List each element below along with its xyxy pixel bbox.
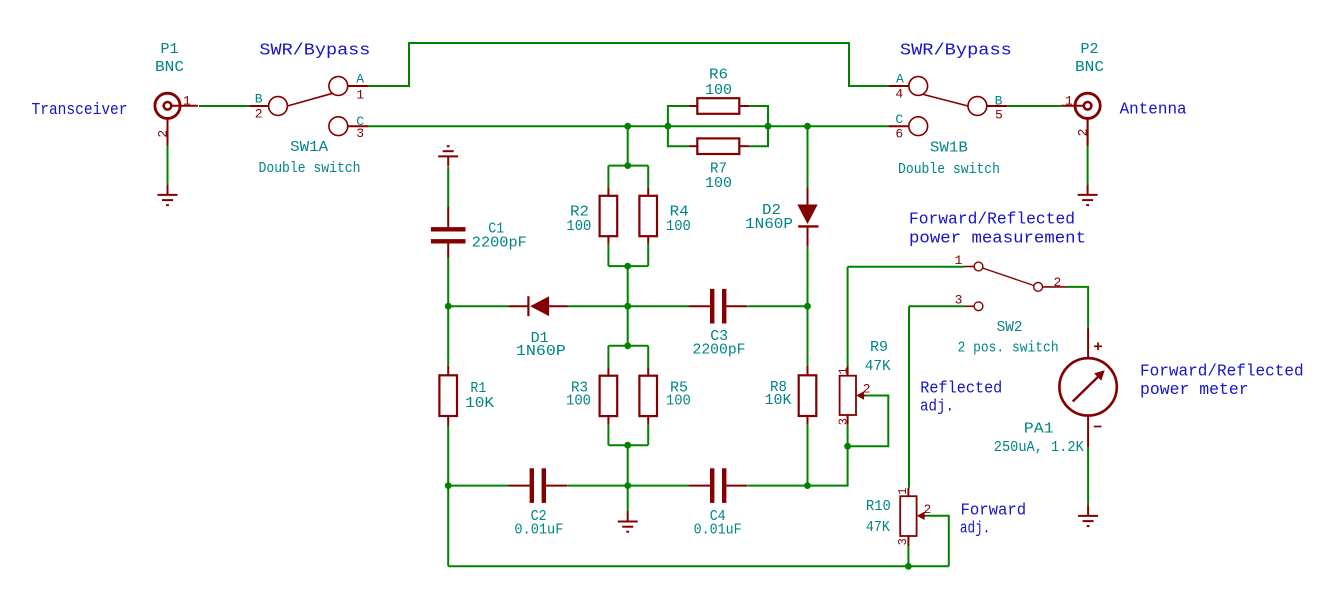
node junction R9 pin3 wiper: [844, 443, 851, 450]
switch SW1A lever: [287, 93, 333, 106]
wire D2 to R8 top: [807, 246, 809, 365]
pin stubs of R8: [807, 366, 809, 376]
wire R2 R4 top bracket: [608, 165, 648, 167]
pin A stub of SW1B: [888, 85, 908, 87]
svg-text:2: 2: [1054, 275, 1062, 290]
ground under P1: [158, 184, 178, 205]
svg-text:SWR/Bypass: SWR/Bypass: [259, 41, 370, 60]
svg-text:2200pF: 2200pF: [693, 342, 746, 359]
svg-text:Antenna: Antenna: [1120, 101, 1187, 120]
text Forward/Reflected power meter: [1140, 362, 1304, 400]
wire P1 pin1 to SW1A pin B: [199, 105, 249, 107]
node junction R6R7 right: [765, 123, 772, 130]
wire to R4 top: [647, 166, 649, 188]
wire center node down to R3 R5 top: [627, 266, 629, 346]
connector P2 BNC: [1075, 93, 1100, 118]
wire to R7 left: [668, 126, 689, 146]
potentiometer R10 body: [900, 496, 916, 536]
pin C stub of SW1A: [348, 125, 368, 127]
wire C4 to R9 pin3 node: [748, 446, 848, 485]
capacitor C3: [689, 289, 748, 324]
node junction R2R4 bottom: [624, 263, 631, 270]
plus sign of PA1: [1094, 342, 1102, 350]
svg-text:100: 100: [666, 393, 691, 410]
wire R2 bottom: [607, 244, 609, 266]
svg-text:2200pF: 2200pF: [472, 234, 527, 251]
resistor R8: [799, 375, 817, 416]
pin stubs of R4: [647, 188, 649, 196]
svg-text:PA1: PA1: [1024, 420, 1054, 437]
node junction mid center: [624, 303, 631, 310]
minus sign of PA1: [1094, 426, 1102, 428]
svg-text:6: 6: [895, 126, 903, 141]
node junction R6R7 left: [665, 123, 672, 130]
pin stubs of R3: [607, 368, 609, 376]
wire to R6 left: [668, 106, 689, 126]
switch SW1B lever: [924, 95, 969, 107]
svg-text:R9: R9: [870, 339, 888, 356]
wire SW2 pin3 down to R10 pin1: [908, 306, 910, 487]
svg-text:0.01uF: 0.01uF: [514, 522, 563, 539]
svg-text:power measurement: power measurement: [909, 230, 1086, 249]
ground above C1: [438, 146, 458, 166]
pin B stub of SW1B: [987, 105, 1007, 107]
pin 1 of P1: [171, 105, 198, 107]
svg-text:R10: R10: [866, 498, 891, 515]
wiper arrow of R9: [856, 391, 866, 399]
svg-text:2: 2: [863, 382, 871, 397]
pin stubs of R9: [847, 366, 849, 376]
capacitor C4: [689, 468, 748, 503]
wire P1 pin2 to ground: [167, 119, 169, 185]
resistor R6: [697, 98, 739, 114]
wire to R3 top: [607, 346, 609, 368]
resistor R5: [639, 376, 657, 416]
svg-text:A: A: [356, 72, 364, 87]
svg-text:47K: 47K: [866, 519, 890, 536]
wiper arrow of R10: [917, 512, 926, 520]
ground under meter: [1078, 505, 1098, 526]
svg-text:Reflected: Reflected: [920, 380, 1002, 399]
wire to SW2 pin 1: [848, 266, 965, 268]
wire C1 to mid node and R1: [447, 257, 449, 366]
node junction main line R2R4 tap: [624, 123, 631, 130]
node junction lower bus R8: [804, 482, 811, 489]
svg-text:P1: P1: [161, 41, 179, 58]
pin stubs of R1: [447, 366, 449, 376]
svg-text:C: C: [895, 112, 903, 127]
svg-text:B: B: [995, 93, 1003, 108]
wire line down to D2: [807, 126, 809, 187]
pin stubs of R2: [607, 188, 609, 196]
resistor R7: [697, 138, 739, 154]
ground under P2: [1078, 184, 1098, 205]
wire R9 wiper loop: [848, 396, 889, 447]
wire ground to C1: [447, 167, 449, 207]
svg-text:10K: 10K: [465, 395, 494, 412]
node junction lower bus center: [624, 482, 631, 489]
svg-text:1: 1: [955, 253, 963, 268]
wire SW1A pin A to SW1B pin A (bypass): [368, 43, 888, 86]
node junction mid C1 R1: [445, 303, 452, 310]
wire R4 bottom: [647, 244, 649, 266]
meter PA1: [1059, 328, 1116, 447]
wire P2 pin2 to ground: [1087, 119, 1089, 185]
wire C2 to C4: [567, 485, 689, 487]
switch SW1B pole B circle: [968, 97, 987, 116]
switch SW2 pin 2 circle: [1034, 283, 1043, 292]
wire R9 pin3 down: [847, 425, 849, 446]
wire center down to lower bus: [627, 445, 629, 485]
wire R2 R4 bottom bracket: [608, 265, 648, 267]
node junction bottom bus R10: [905, 563, 912, 570]
wire R10 wiper loop: [926, 516, 949, 567]
svg-text:BNC: BNC: [155, 59, 184, 76]
wire mid bus to D1 anode: [448, 305, 508, 307]
svg-text:1: 1: [837, 367, 851, 374]
svg-text:2 pos. switch: 2 pos. switch: [958, 340, 1059, 357]
svg-text:adj.: adj.: [960, 520, 990, 539]
svg-text:0.01uF: 0.01uF: [694, 522, 742, 539]
svg-text:100: 100: [705, 175, 732, 192]
connector P1 BNC: [155, 93, 180, 118]
pin stubs of R7: [689, 145, 697, 147]
svg-text:250uA, 1.2K: 250uA, 1.2K: [994, 439, 1084, 456]
wire SW2 pin2 to meter: [1067, 287, 1088, 328]
pin B stub of SW1A: [249, 105, 268, 107]
svg-text:1: 1: [896, 488, 910, 495]
potentiometer R9 body: [840, 376, 856, 415]
svg-text:2: 2: [924, 502, 932, 517]
wire D1 to C3: [568, 305, 689, 307]
resistor R2: [600, 196, 618, 236]
svg-text:adj.: adj.: [920, 398, 954, 417]
pin 2 stub of SW2: [1043, 286, 1067, 288]
wire SW1B pin B to P2 pin1: [1007, 105, 1061, 107]
svg-text:Forward/Reflected: Forward/Reflected: [1140, 362, 1304, 381]
switch SW2 pin 1 circle: [974, 262, 983, 271]
svg-text:B: B: [255, 92, 263, 107]
svg-text:power meter: power meter: [1140, 381, 1249, 400]
pin C stub of SW1B: [888, 125, 908, 127]
wire R3 R5 bottom bracket: [608, 444, 648, 446]
text Forward/Reflected power measurement: [909, 211, 1086, 249]
wire R1 bottom down to bottom bus: [447, 426, 449, 566]
switch SW2 pin 3 circle: [974, 302, 983, 311]
capacitor C2: [509, 468, 568, 503]
svg-text:2: 2: [255, 107, 263, 122]
switch SW1A contact C circle: [329, 117, 348, 136]
svg-text:47K: 47K: [865, 358, 891, 375]
wire R10 pin3 down: [907, 546, 909, 566]
wire SW2 pin1 down to R9 pin1: [847, 267, 849, 366]
svg-text:5: 5: [995, 108, 1003, 123]
resistor R3: [600, 376, 618, 416]
switch SW1A contact A circle: [329, 77, 348, 96]
svg-text:1N60P: 1N60P: [516, 343, 566, 360]
node junction mid D2 R8: [804, 303, 811, 310]
svg-text:Double switch: Double switch: [898, 161, 1000, 178]
node junction R3R5 top: [624, 342, 631, 349]
wire lower bus to center ground: [627, 486, 629, 511]
node junction main line D2 tap: [804, 123, 811, 130]
switch SW1B contact C circle: [909, 117, 928, 136]
wire meter minus to ground: [1087, 447, 1089, 505]
svg-text:Transceiver: Transceiver: [32, 101, 128, 120]
svg-text:3: 3: [837, 418, 851, 425]
svg-text:3: 3: [896, 538, 910, 545]
ground center bottom: [618, 511, 638, 532]
switch SW1A pole B circle: [269, 97, 288, 116]
svg-text:2: 2: [156, 130, 171, 138]
pin 1 of P2: [1061, 105, 1084, 107]
resistor R4: [639, 196, 657, 236]
pin stubs of R10: [907, 488, 909, 497]
svg-text:100: 100: [705, 82, 732, 99]
svg-text:P2: P2: [1081, 41, 1099, 58]
svg-text:SW2: SW2: [997, 319, 1023, 336]
pin 3 stub of SW2: [965, 305, 975, 307]
svg-text:4: 4: [895, 87, 903, 102]
wire R6 right to line: [749, 106, 768, 126]
switch SW1B contact A circle: [909, 77, 928, 96]
wire R7 right to line: [749, 126, 768, 146]
svg-text:100: 100: [566, 218, 591, 235]
svg-text:SW1B: SW1B: [930, 140, 968, 157]
svg-text:100: 100: [666, 218, 691, 235]
svg-text:Double switch: Double switch: [259, 160, 361, 177]
node junction R2R4 top: [624, 162, 631, 169]
diode D1: [508, 296, 568, 316]
resistor R1: [439, 375, 457, 416]
pin stubs of R5: [647, 368, 649, 376]
svg-text:BNC: BNC: [1075, 59, 1104, 76]
wire R3 bottom: [607, 425, 609, 446]
svg-text:2: 2: [1075, 129, 1090, 137]
node junction R3R5 bottom: [624, 442, 631, 449]
text Forward adj.: [960, 501, 1026, 538]
pin 1 stub of SW2: [965, 266, 975, 268]
svg-text:1: 1: [183, 94, 191, 109]
wire line down to R2 R4 top: [627, 126, 629, 165]
svg-text:3: 3: [955, 293, 963, 308]
svg-text:1N60P: 1N60P: [745, 216, 793, 233]
wire bottom bus: [448, 565, 949, 567]
node junction lower bus left: [445, 482, 452, 489]
svg-text:Forward/Reflected: Forward/Reflected: [909, 211, 1075, 230]
diode D2: [797, 188, 818, 247]
wire to R5 top: [647, 346, 649, 368]
text Reflected adj.: [920, 380, 1002, 417]
wire main line SW1A C to SW1B C: [368, 125, 888, 127]
svg-text:SWR/Bypass: SWR/Bypass: [900, 42, 1012, 61]
wire C3 to D2 node: [748, 305, 808, 307]
svg-text:10K: 10K: [765, 392, 792, 409]
svg-text:1: 1: [356, 88, 364, 103]
pin stubs of R6: [689, 105, 697, 107]
svg-text:1: 1: [1065, 94, 1073, 109]
wire R8 bottom to lower bus: [807, 425, 809, 486]
svg-text:100: 100: [566, 393, 591, 410]
wire R3 R5 top bracket: [608, 345, 648, 347]
wire lower bus to C2: [448, 485, 508, 487]
wire R5 bottom: [647, 425, 649, 446]
capacitor C1: [431, 207, 466, 257]
svg-text:SW1A: SW1A: [290, 139, 328, 156]
svg-text:A: A: [896, 72, 904, 87]
wire to R2 top: [607, 166, 609, 188]
pin A stub of SW1A: [348, 85, 368, 87]
svg-text:3: 3: [356, 126, 364, 141]
switch SW2 lever: [983, 268, 1034, 286]
wire SW2 pin 3: [909, 305, 965, 307]
svg-text:Forward: Forward: [961, 501, 1027, 520]
